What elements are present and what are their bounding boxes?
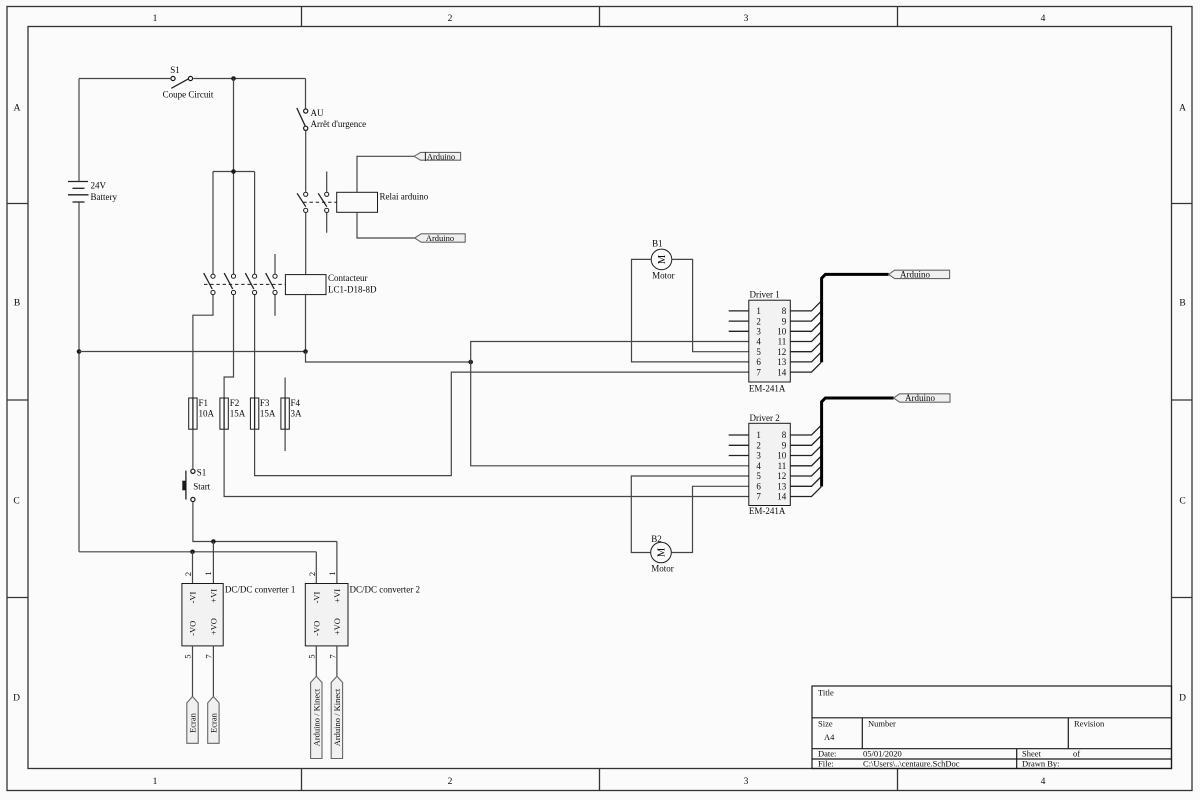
wire AU to relay contact (305, 131, 307, 192)
port Ecran 2 (208, 697, 219, 744)
svg-text:M: M (657, 547, 668, 557)
wire top rail left (79, 78, 170, 80)
svg-text:05/01/2020: 05/01/2020 (863, 749, 902, 759)
wire to driver1 pin 4 (471, 342, 749, 363)
svg-text:Arduino: Arduino (900, 269, 930, 279)
TITLE BLOCK (812, 686, 1172, 769)
driver2 pin 2 stub (729, 444, 749, 446)
svg-text:2: 2 (756, 441, 761, 451)
svg-text:5: 5 (756, 471, 761, 481)
svg-text:A4: A4 (824, 732, 835, 742)
wire down to contactor bracket (233, 79, 235, 172)
DC/DC converter 1 (182, 571, 295, 658)
wire B1 left to driver1 pin 6 (632, 259, 749, 362)
svg-text:Number: Number (868, 719, 896, 729)
wire F2 to driver2 pin 7 (224, 429, 749, 496)
svg-text:of: of (1073, 749, 1080, 759)
svg-text:D: D (1179, 694, 1186, 704)
svg-text:3A: 3A (291, 408, 303, 418)
svg-text:Size: Size (818, 719, 833, 729)
svg-text:7: 7 (204, 654, 214, 658)
wire battery positive up (78, 79, 80, 182)
svg-text:+VO: +VO (209, 618, 219, 635)
fuse F4 3A (281, 398, 302, 429)
junction +V rail at DC1 (211, 539, 216, 544)
svg-text:F4: F4 (291, 398, 301, 408)
switch AU Arret d'urgence (297, 108, 366, 130)
svg-text:B: B (14, 299, 20, 309)
fuse F1 10A (189, 398, 215, 429)
svg-text:Motor: Motor (651, 564, 674, 574)
svg-text:5: 5 (307, 654, 317, 658)
svg-text:D: D (13, 694, 20, 704)
motor B2 (651, 534, 674, 574)
svg-text:Motor: Motor (652, 270, 675, 280)
svg-text:1: 1 (756, 430, 761, 440)
svg-text:12: 12 (777, 347, 786, 357)
junction bracket at x=233.5 (231, 169, 236, 174)
wire relay to contactor coil (305, 213, 307, 275)
wire battery negative down (78, 202, 80, 552)
svg-text:F2: F2 (230, 398, 240, 408)
wire to driver2 pin 4 (471, 362, 749, 466)
wire F3 to driver1 pin 7 (255, 372, 749, 476)
wire top rail right of S1 (193, 78, 305, 80)
driver2 pin 1 stub (729, 434, 749, 436)
svg-text:7: 7 (328, 654, 338, 658)
svg-text:2: 2 (183, 572, 193, 576)
junction coil bottom (303, 349, 308, 354)
contactor pole 1 (204, 273, 215, 295)
svg-text:C: C (13, 497, 19, 507)
fuse F3 15A (250, 398, 276, 429)
svg-text:4: 4 (1041, 14, 1046, 24)
wire negative to DC1 -VI (192, 552, 194, 584)
svg-text:+VO: +VO (332, 618, 342, 635)
svg-text:LC1-D18-8D: LC1-D18-8D (328, 284, 377, 294)
wire relay coil to upper Arduino port (357, 156, 414, 192)
wire B2 right to driver2 pin 6 (671, 486, 749, 552)
svg-text:-VI: -VI (187, 591, 197, 603)
wire negative to DC2 -VI (315, 552, 317, 584)
fuse F2 15A (220, 398, 246, 429)
svg-text:15A: 15A (230, 408, 246, 418)
port Arduino/Kinect 1 (311, 676, 322, 758)
svg-text:13: 13 (777, 357, 787, 367)
junction negative at y=351.5 (77, 349, 82, 354)
wire negative branch to contactor coil (79, 351, 306, 353)
wire start switch to +V rail (193, 502, 337, 541)
svg-text:11: 11 (778, 337, 787, 347)
svg-text:Title: Title (818, 688, 834, 698)
svg-text:7: 7 (756, 492, 761, 502)
driver 1 EM-241A (749, 290, 791, 394)
svg-text:A: A (14, 104, 21, 114)
svg-text:F3: F3 (260, 398, 270, 408)
port Arduino lower (415, 233, 466, 243)
svg-text:1: 1 (153, 14, 158, 24)
svg-text:12: 12 (777, 471, 786, 481)
svg-text:7: 7 (756, 367, 761, 377)
svg-text:Start: Start (193, 482, 210, 492)
svg-text:-VI: -VI (312, 591, 322, 603)
svg-text:C: C (1179, 497, 1185, 507)
relay contact pole 2 (318, 172, 329, 233)
svg-text:DC/DC converter 1: DC/DC converter 1 (225, 584, 295, 594)
contactor pole 3 (245, 273, 256, 295)
svg-text:Date:: Date: (818, 748, 836, 758)
svg-text:5: 5 (756, 347, 761, 357)
svg-text:C:\Users\..\centaure.SchDoc: C:\Users\..\centaure.SchDoc (863, 759, 960, 769)
svg-text:15A: 15A (260, 408, 276, 418)
junction negative at DC1 (190, 550, 195, 555)
svg-text:Ecran: Ecran (188, 712, 198, 733)
DC/DC converter 2 (305, 571, 420, 658)
svg-text:File:: File: (818, 759, 834, 769)
svg-text:6: 6 (756, 482, 761, 492)
bus driver1 to Arduino (822, 274, 889, 362)
svg-text:10: 10 (777, 451, 787, 461)
svg-text:10A: 10A (199, 408, 215, 418)
svg-text:S1: S1 (197, 468, 207, 478)
svg-text:EM-241A: EM-241A (749, 506, 786, 516)
wire coil junction to drivers junction (306, 352, 471, 363)
svg-text:-VO: -VO (187, 621, 197, 636)
svg-text:+VI: +VI (332, 589, 342, 603)
wire +V to DC2 +VI (336, 542, 338, 584)
port Arduino upper (414, 151, 461, 161)
driver1 pin 2 stub (729, 320, 749, 322)
svg-text:Relai arduino: Relai arduino (380, 192, 429, 202)
svg-text:Arduino: Arduino (427, 151, 455, 161)
svg-text:Arduino: Arduino (426, 233, 454, 243)
port Arduino driver2 (894, 393, 950, 403)
switch S1 Start pushbutton (182, 468, 210, 502)
svg-text:Arduino / Kinect: Arduino / Kinect (332, 688, 342, 746)
wire +V to DC1 +VI (212, 542, 214, 584)
svg-text:Driver 1: Driver 1 (750, 290, 780, 300)
wire DC2 +VO to port (336, 646, 338, 676)
wire negative rail bottom (79, 551, 316, 553)
wire pole1 to fuse F1 (193, 295, 213, 398)
svg-text:B2: B2 (651, 534, 662, 544)
svg-text:F1: F1 (199, 398, 209, 408)
svg-text:B: B (1179, 299, 1185, 309)
wire B1 right to driver1 pin 5 (672, 259, 749, 351)
svg-text:M: M (657, 254, 668, 264)
svg-text:13: 13 (777, 482, 787, 492)
wire contactor feed bracket (213, 172, 255, 275)
wire B2 left to driver2 pin 5 (631, 476, 749, 553)
svg-text:Arduino / Kinect: Arduino / Kinect (311, 688, 321, 746)
svg-text:14: 14 (777, 492, 787, 502)
svg-text:B1: B1 (652, 238, 663, 248)
driver2 pin 3 stub (729, 455, 749, 457)
wire F1 to start switch (192, 429, 194, 469)
svg-text:5: 5 (183, 654, 193, 658)
relay contact pole 1 (297, 192, 308, 212)
wire relay coil to lower Arduino port (357, 212, 415, 238)
svg-text:2: 2 (756, 316, 761, 326)
junction drivers feed (468, 360, 473, 365)
svg-text:AU: AU (311, 108, 324, 118)
svg-text:2: 2 (307, 572, 317, 576)
battery 24V (68, 181, 117, 203)
wire pole2 to fuse F2 (224, 295, 233, 398)
svg-text:1: 1 (756, 306, 761, 316)
port Arduino driver1 (889, 269, 950, 279)
relay coil Relai arduino (337, 192, 429, 213)
svg-text:3: 3 (756, 451, 761, 461)
wire DC1 +VO to Ecran port (212, 646, 214, 697)
svg-text:8: 8 (782, 306, 787, 316)
svg-text:Arduino: Arduino (905, 393, 935, 403)
svg-text:1: 1 (153, 777, 158, 787)
wire down to AU (305, 79, 307, 109)
svg-text:Battery: Battery (91, 192, 118, 202)
svg-text:Arrêt d'urgence: Arrêt d'urgence (311, 119, 367, 129)
svg-text:10: 10 (777, 327, 787, 337)
svg-text:11: 11 (778, 461, 787, 471)
junction top rail at x=233.5 (231, 76, 236, 81)
relay linkage dashed (303, 201, 336, 203)
wire stub fuse F4 bottom (284, 429, 286, 451)
svg-text:Ecran: Ecran (208, 712, 218, 733)
motor B1 (651, 238, 674, 280)
driver 2 EM-241A (749, 413, 791, 516)
svg-text:14: 14 (777, 367, 787, 377)
svg-text:-VO: -VO (312, 621, 322, 636)
svg-text:3: 3 (756, 327, 761, 337)
svg-text:1: 1 (203, 571, 213, 575)
svg-text:Drawn By:: Drawn By: (1022, 759, 1060, 769)
svg-text:24V: 24V (91, 181, 107, 191)
svg-text:4: 4 (1041, 777, 1046, 787)
svg-text:1: 1 (327, 571, 337, 575)
contactor coil LC1-D18-8D (285, 273, 377, 295)
port Arduino/Kinect 2 (331, 676, 342, 758)
wire stub fuse F4 top (284, 378, 286, 399)
svg-text:3: 3 (744, 14, 749, 24)
svg-text:Sheet: Sheet (1022, 749, 1042, 759)
svg-text:Coupe Circuit: Coupe Circuit (163, 90, 214, 100)
svg-text:Contacteur: Contacteur (328, 273, 368, 283)
port Ecran 1 (187, 697, 198, 744)
driver1 pin 3 stub (729, 330, 749, 332)
svg-text:4: 4 (756, 337, 761, 347)
wire pole3 to fuse F3 (254, 295, 256, 398)
contactor linkage dashed (204, 283, 285, 285)
bus driver2 to Arduino (822, 398, 894, 487)
svg-text:3: 3 (744, 777, 749, 787)
switch S1 Coupe Circuit (163, 65, 214, 100)
driver2 right pins 8-14 (790, 425, 821, 496)
driver1 right pins 8-14 (790, 301, 821, 372)
contactor pole 2 (224, 273, 235, 295)
svg-text:S1: S1 (170, 65, 180, 75)
svg-text:9: 9 (782, 316, 787, 326)
svg-text:Driver 2: Driver 2 (750, 413, 780, 423)
driver1 pin 1 stub (729, 310, 749, 312)
svg-text:A: A (1179, 104, 1186, 114)
contactor pole 4 aux (266, 254, 277, 316)
svg-text:2: 2 (448, 777, 453, 787)
svg-text:9: 9 (782, 441, 787, 451)
svg-text:EM-241A: EM-241A (749, 384, 786, 394)
wire DC1 -VO to Ecran port (192, 646, 194, 697)
wire contactor coil bottom (305, 295, 307, 352)
svg-text:DC/DC converter 2: DC/DC converter 2 (350, 584, 420, 594)
wire DC2 -VO to port (315, 646, 317, 676)
svg-text:+VI: +VI (209, 589, 219, 603)
svg-text:4: 4 (756, 461, 761, 471)
svg-text:2: 2 (448, 14, 453, 24)
svg-text:6: 6 (756, 357, 761, 367)
svg-text:Revision: Revision (1074, 719, 1105, 729)
svg-text:8: 8 (782, 430, 787, 440)
